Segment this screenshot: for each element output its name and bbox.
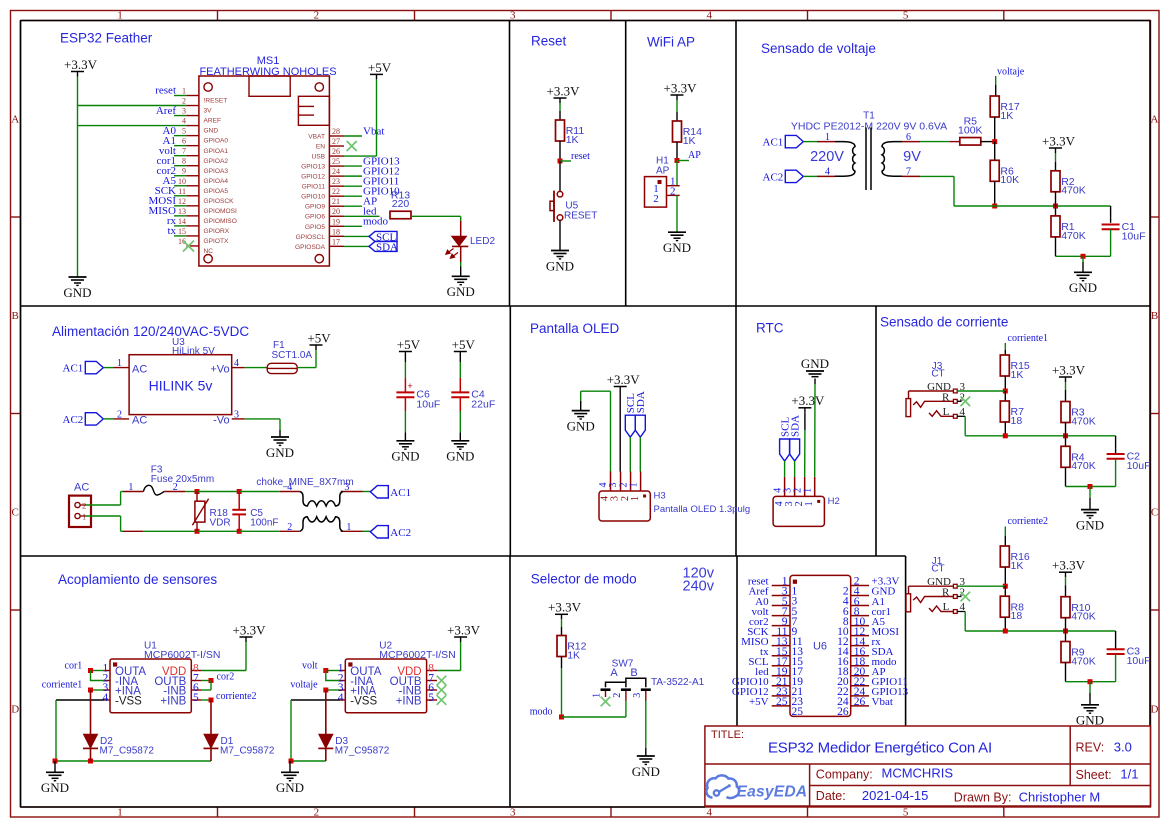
svg-text:H3: H3 (654, 491, 666, 502)
svg-text:10uF: 10uF (1127, 460, 1151, 472)
svg-text:ESP32 Medidor Energético Con A: ESP32 Medidor Energético Con AI (768, 739, 992, 756)
svg-text:GND: GND (63, 285, 91, 300)
svg-text:Fuse 20x5mm: Fuse 20x5mm (151, 474, 214, 485)
svg-text:1: 1 (630, 496, 641, 501)
svg-text:GPIOA5: GPIOA5 (204, 188, 229, 195)
svg-text:AC2: AC2 (63, 414, 84, 426)
svg-text:GND: GND (391, 449, 419, 464)
svg-text:2: 2 (173, 482, 178, 493)
svg-text:GPIOSCK: GPIOSCK (204, 198, 235, 205)
svg-text:1: 1 (182, 87, 186, 96)
svg-text:4: 4 (706, 807, 712, 819)
svg-text:1: 1 (802, 488, 813, 493)
svg-text:led: led (363, 206, 377, 218)
svg-text:GPIO10: GPIO10 (301, 194, 325, 201)
svg-text:17: 17 (332, 237, 340, 246)
svg-text:GND: GND (1069, 280, 1097, 295)
svg-text:-VSS: -VSS (350, 695, 377, 707)
svg-text:Selector de modo: Selector de modo (531, 572, 637, 587)
svg-text:Alimentación 120/240VAC-5VDC: Alimentación 120/240VAC-5VDC (52, 324, 249, 339)
svg-text:5: 5 (193, 692, 199, 704)
svg-text:TITLE:: TITLE: (711, 729, 744, 741)
svg-text:B: B (630, 667, 637, 679)
svg-text:Sheet:: Sheet: (1076, 768, 1112, 782)
svg-text:+INB: +INB (160, 695, 186, 707)
svg-text:22: 22 (332, 187, 340, 196)
svg-text:M7_C95872: M7_C95872 (335, 746, 390, 757)
svg-text:D: D (1151, 704, 1159, 716)
svg-text:Reset: Reset (531, 34, 567, 49)
svg-text:Vbat: Vbat (872, 696, 893, 708)
svg-text:AP: AP (656, 165, 670, 176)
svg-text:470K: 470K (1071, 655, 1096, 667)
svg-text:GPIOA3: GPIOA3 (204, 168, 229, 175)
svg-text:RTC: RTC (756, 321, 784, 336)
svg-text:19: 19 (332, 217, 340, 226)
svg-text:GND: GND (276, 780, 304, 795)
svg-text:470K: 470K (1061, 230, 1086, 242)
svg-text:2: 2 (182, 97, 186, 106)
svg-text:100nF: 100nF (250, 517, 278, 528)
svg-text:WiFi AP: WiFi AP (647, 35, 695, 50)
svg-text:470K: 470K (1061, 185, 1086, 197)
svg-text:GND: GND (266, 445, 294, 460)
svg-text:3.0: 3.0 (1114, 739, 1132, 754)
svg-text:A: A (11, 114, 19, 126)
svg-text:10uF: 10uF (416, 398, 440, 410)
svg-text:25: 25 (776, 696, 788, 708)
svg-text:MCMCHRIS: MCMCHRIS (882, 766, 954, 781)
svg-text:GPIORX: GPIORX (204, 228, 230, 235)
svg-text:GND: GND (567, 418, 595, 433)
svg-text:4: 4 (234, 358, 239, 369)
svg-text:26: 26 (854, 696, 866, 708)
svg-text:1: 1 (825, 132, 830, 143)
svg-text:20: 20 (332, 207, 340, 216)
svg-text:1K: 1K (683, 135, 696, 147)
svg-text:1: 1 (117, 358, 122, 369)
svg-text:+3.3V: +3.3V (233, 622, 267, 637)
svg-text:GPIOA0: GPIOA0 (204, 138, 229, 145)
svg-text:EasyEDA: EasyEDA (737, 784, 808, 801)
svg-text:+5V: +5V (397, 337, 421, 352)
svg-text:GPIOA2: GPIOA2 (204, 158, 229, 165)
svg-text:voltaje: voltaje (997, 67, 1025, 78)
svg-text:C: C (12, 507, 19, 519)
svg-text:+: + (407, 381, 412, 391)
svg-text:GND: GND (546, 258, 574, 273)
svg-text:AC1: AC1 (63, 363, 84, 375)
svg-text:28: 28 (332, 127, 340, 136)
svg-text:A: A (1151, 114, 1159, 126)
svg-text:+5V: +5V (749, 696, 769, 708)
svg-text:GPIO9: GPIO9 (305, 204, 325, 211)
svg-text:3: 3 (632, 693, 643, 698)
svg-text:8: 8 (182, 157, 186, 166)
svg-text:5: 5 (182, 127, 186, 136)
svg-text:+Vo: +Vo (210, 363, 229, 375)
svg-text:2: 2 (612, 693, 623, 698)
svg-text:GND: GND (204, 128, 219, 135)
svg-text:+5V: +5V (368, 60, 392, 75)
svg-text:Acoplamiento de sensores: Acoplamiento de sensores (58, 572, 217, 587)
svg-text:220V: 220V (810, 149, 844, 165)
svg-text:7: 7 (182, 147, 186, 156)
svg-text:1K: 1K (1011, 560, 1024, 572)
svg-text:AC: AC (132, 414, 147, 426)
svg-text:9V: 9V (903, 149, 921, 165)
svg-text:GPIO12: GPIO12 (301, 174, 325, 181)
svg-text:1K: 1K (567, 649, 580, 661)
svg-text:2: 2 (287, 522, 292, 533)
svg-text:HILINK 5v: HILINK 5v (149, 378, 213, 394)
svg-text:18: 18 (1011, 610, 1023, 622)
svg-text:3: 3 (182, 107, 186, 116)
svg-text:Company:: Company: (816, 767, 873, 781)
svg-text:4: 4 (825, 167, 830, 178)
svg-text:reset: reset (155, 85, 176, 97)
svg-text:M7_C95872: M7_C95872 (220, 746, 275, 757)
svg-text:+3.3V: +3.3V (1042, 133, 1076, 148)
svg-text:AC1: AC1 (763, 137, 784, 149)
svg-text:YHDC PE2012-M 220V 9V 0.6VA: YHDC PE2012-M 220V 9V 0.6VA (791, 120, 947, 132)
svg-text:corriente1: corriente1 (1008, 333, 1049, 344)
svg-text:GPIO13: GPIO13 (301, 164, 325, 171)
svg-text:2021-04-15: 2021-04-15 (862, 788, 929, 803)
svg-text:RESET: RESET (564, 211, 597, 222)
svg-text:10uF: 10uF (1122, 230, 1146, 242)
svg-text:LED2: LED2 (470, 236, 495, 247)
svg-text:SDA: SDA (789, 415, 801, 437)
svg-text:GND: GND (447, 284, 475, 299)
svg-text:7: 7 (906, 167, 911, 178)
svg-text:M7_C95872: M7_C95872 (100, 746, 155, 757)
svg-text:EN: EN (316, 144, 325, 151)
svg-text:SCT1.0A: SCT1.0A (272, 350, 313, 361)
svg-text:24: 24 (332, 167, 340, 176)
svg-text:VDR: VDR (210, 517, 231, 528)
svg-text:+5V: +5V (452, 337, 476, 352)
svg-text:1K: 1K (566, 134, 579, 146)
svg-text:23: 23 (332, 177, 340, 186)
svg-text:+3.3V: +3.3V (548, 600, 582, 615)
svg-text:1: 1 (628, 483, 639, 488)
svg-text:B: B (12, 310, 19, 322)
svg-text:1: 1 (804, 501, 815, 506)
svg-text:4: 4 (338, 692, 344, 704)
svg-text:-VSS: -VSS (115, 695, 142, 707)
svg-text:470K: 470K (1071, 460, 1096, 472)
svg-text:14: 14 (178, 217, 186, 226)
svg-text:+3.3V: +3.3V (64, 57, 98, 72)
svg-text:D: D (11, 704, 19, 716)
svg-text:1: 1 (117, 807, 123, 819)
svg-text:GPIOMOSI: GPIOMOSI (204, 208, 238, 215)
svg-text:ESP32 Feather: ESP32 Feather (60, 30, 153, 45)
svg-text:3V: 3V (204, 108, 213, 115)
svg-text:3: 3 (510, 807, 516, 819)
svg-text:2: 2 (117, 409, 122, 420)
svg-text:26: 26 (332, 147, 340, 156)
svg-text:AC: AC (74, 482, 89, 494)
svg-text:18: 18 (1011, 415, 1023, 427)
svg-text:SDA: SDA (376, 241, 398, 253)
svg-text:corriente1: corriente1 (42, 680, 83, 691)
svg-text:B: B (1151, 310, 1158, 322)
svg-text:25: 25 (792, 706, 804, 718)
svg-text:Vbat: Vbat (363, 125, 384, 137)
svg-text:+3.3V: +3.3V (607, 372, 641, 387)
svg-text:10: 10 (178, 177, 186, 186)
svg-text:Sensado de corriente: Sensado de corriente (880, 315, 1008, 330)
svg-text:GPIOA4: GPIOA4 (204, 178, 229, 185)
svg-text:GPIOTX: GPIOTX (204, 238, 230, 245)
svg-text:MCP6002T-I/SN: MCP6002T-I/SN (379, 649, 455, 661)
svg-text:1: 1 (346, 522, 351, 533)
svg-text:21: 21 (332, 197, 340, 206)
svg-text:volt: volt (302, 660, 318, 671)
svg-text:+3.3V: +3.3V (447, 622, 481, 637)
svg-text:Pantalla OLED: Pantalla OLED (530, 321, 620, 336)
svg-text:GND: GND (632, 764, 660, 779)
svg-text:5: 5 (903, 807, 909, 819)
svg-text:GND: GND (41, 780, 69, 795)
svg-text:Sensado de voltaje: Sensado de voltaje (761, 41, 876, 56)
svg-text:100K: 100K (958, 124, 983, 136)
svg-text:TA-3522-A1: TA-3522-A1 (651, 677, 705, 688)
svg-text:Drawn By:: Drawn By: (954, 791, 1012, 805)
svg-text:+INB: +INB (396, 695, 422, 707)
svg-text:NC: NC (204, 248, 214, 255)
svg-text:Pantalla OLED 1.3pulg: Pantalla OLED 1.3pulg (654, 504, 751, 515)
svg-text:GPIOSDA: GPIOSDA (295, 244, 326, 251)
svg-text:cor2: cor2 (217, 672, 235, 683)
svg-text:corriente2: corriente2 (216, 691, 257, 702)
svg-text:CT: CT (931, 564, 944, 575)
svg-text:AC2: AC2 (763, 171, 784, 183)
svg-text:18: 18 (332, 227, 340, 236)
svg-text:Date:: Date: (816, 789, 846, 803)
svg-text:C: C (1151, 507, 1158, 519)
svg-text:AREF: AREF (204, 118, 222, 125)
svg-text:!RESET: !RESET (204, 98, 228, 105)
svg-text:22uF: 22uF (471, 398, 495, 410)
svg-text:3: 3 (344, 482, 349, 493)
svg-text:GND: GND (1076, 517, 1104, 532)
svg-text:12: 12 (178, 197, 186, 206)
svg-text:H2: H2 (828, 496, 840, 507)
svg-text:MCP6002T-I/SN: MCP6002T-I/SN (144, 649, 220, 661)
svg-text:240v: 240v (683, 579, 715, 595)
svg-text:VBAT: VBAT (308, 134, 325, 141)
svg-text:470K: 470K (1071, 415, 1096, 427)
svg-text:10uF: 10uF (1127, 655, 1151, 667)
svg-text:GPIOMISO: GPIOMISO (204, 218, 237, 225)
svg-text:choke_MINE_8X7mm: choke_MINE_8X7mm (256, 477, 353, 488)
svg-text:470K: 470K (1071, 611, 1096, 623)
svg-text:+3.3V: +3.3V (1052, 558, 1086, 573)
svg-text:reset: reset (571, 151, 590, 162)
svg-text:1/1: 1/1 (1120, 766, 1138, 781)
svg-text:GND: GND (663, 240, 691, 255)
svg-text:25: 25 (332, 157, 340, 166)
svg-text:+5V: +5V (307, 330, 331, 345)
svg-text:GPIO6: GPIO6 (305, 214, 325, 221)
svg-text:GPIO11: GPIO11 (302, 184, 326, 191)
svg-text:4: 4 (182, 117, 186, 126)
svg-text:GPIOA1: GPIOA1 (204, 148, 229, 155)
svg-text:4: 4 (102, 692, 108, 704)
svg-text:USB: USB (311, 154, 325, 161)
svg-text:5: 5 (428, 692, 434, 704)
svg-text:HiLink 5V: HiLink 5V (172, 346, 215, 357)
svg-text:CT: CT (931, 369, 944, 380)
svg-text:+3.3V: +3.3V (547, 83, 581, 98)
svg-text:2: 2 (653, 193, 659, 205)
svg-text:U6: U6 (813, 641, 827, 653)
svg-text:6: 6 (182, 137, 186, 146)
svg-text:+3.3V: +3.3V (1052, 362, 1086, 377)
svg-text:corriente2: corriente2 (1008, 516, 1049, 527)
svg-text:27: 27 (332, 137, 340, 146)
svg-text:9: 9 (182, 167, 186, 176)
svg-text:A: A (610, 667, 618, 679)
svg-text:voltaje: voltaje (290, 680, 318, 691)
svg-text:220: 220 (392, 198, 410, 210)
svg-text:2: 2 (314, 807, 320, 819)
svg-text:+3.3V: +3.3V (791, 393, 825, 408)
svg-text:GPIO5: GPIO5 (305, 224, 325, 231)
svg-text:1K: 1K (1011, 369, 1024, 381)
svg-text:Christopher M: Christopher M (1019, 789, 1101, 804)
svg-text:6: 6 (906, 132, 911, 143)
svg-text:Aref: Aref (156, 105, 176, 117)
svg-text:10K: 10K (1000, 174, 1019, 186)
svg-text:1: 1 (128, 482, 133, 493)
svg-text:AC1: AC1 (390, 487, 411, 499)
svg-text:AP: AP (688, 150, 701, 161)
svg-text:AC2: AC2 (390, 527, 411, 539)
svg-text:AC: AC (132, 363, 147, 375)
svg-text:13: 13 (178, 207, 186, 216)
svg-text:cor1: cor1 (65, 660, 83, 671)
svg-text:3: 3 (234, 409, 239, 420)
svg-text:GND: GND (1076, 713, 1104, 728)
svg-text:tx: tx (167, 225, 176, 237)
svg-text:+3.3V: +3.3V (664, 80, 698, 95)
svg-text:2: 2 (670, 185, 676, 197)
svg-text:modo: modo (530, 707, 553, 718)
svg-text:26: 26 (837, 706, 849, 718)
svg-text:15: 15 (178, 227, 186, 236)
svg-text:GND: GND (446, 449, 474, 464)
svg-text:GPIOSCL: GPIOSCL (296, 234, 326, 241)
svg-text:4: 4 (287, 482, 292, 493)
svg-text:1K: 1K (1000, 110, 1013, 122)
svg-text:GND: GND (801, 356, 829, 371)
svg-text:SDA: SDA (635, 391, 647, 413)
svg-text:REV:: REV: (1076, 741, 1105, 755)
svg-text:-Vo: -Vo (213, 414, 230, 426)
svg-text:11: 11 (178, 187, 186, 196)
